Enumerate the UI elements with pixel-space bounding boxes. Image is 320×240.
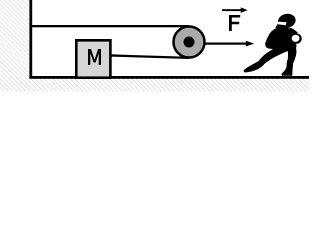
ground hatching (floor texture) [0, 79, 309, 92]
floor [29, 76, 309, 79]
label M (drawn glyph) [88, 49, 101, 65]
wire: upper rope from wall to pulley top [31, 25, 189, 27]
wall hatching (left wall texture) [0, 0, 30, 79]
vector arrow over F [222, 9, 242, 11]
front leg (thigh+shin) [258, 44, 291, 66]
label F (drawn glyph) [229, 15, 240, 31]
pulley axle hub [184, 37, 195, 48]
block M [76, 40, 110, 77]
front foot (shoe) [244, 61, 264, 72]
head (helmet) [277, 12, 297, 29]
wire: lower rope from block M to pulley bottom [110, 54, 189, 59]
back leg (thigh+shin) [287, 44, 296, 64]
wire: pull rope from pulley axle with force arrow [189, 43, 246, 45]
torso merged with front arm and fist [265, 26, 297, 51]
person: running figure silhouette [244, 12, 302, 75]
wall [29, 0, 32, 79]
pulley [174, 27, 205, 58]
helmet visor (white slit) [278, 22, 287, 26]
back hand white glove [292, 35, 300, 42]
pelvis [279, 43, 296, 51]
back foot with sole on ground [281, 61, 293, 76]
facemask/chin [275, 22, 286, 30]
back hand ball with rim [291, 33, 301, 43]
back arm upper [289, 28, 298, 36]
